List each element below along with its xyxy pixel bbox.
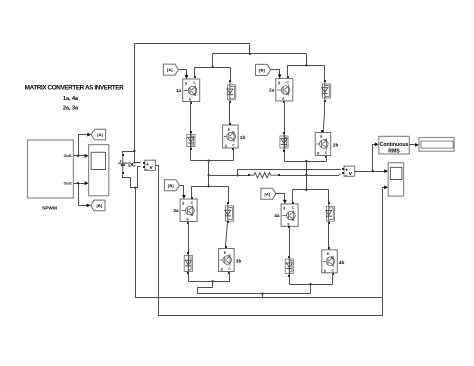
arrowhead 2a gate: [278, 74, 282, 78]
from tag [B] leg2: [256, 64, 271, 75]
svg-text:g: g: [185, 81, 187, 85]
from tag [A] leg4: [261, 188, 276, 199]
IGBT 2b: [315, 133, 331, 156]
snubber diode D4a bottom port: [288, 275, 290, 277]
subsystem SPWM: [28, 140, 74, 198]
3a C port: [191, 197, 193, 199]
svg-text:g: g: [278, 81, 280, 85]
snubber diode D4a: [285, 257, 293, 276]
snubber diode D1b top port: [229, 80, 231, 82]
junction load tap left: [208, 174, 210, 176]
wire from A to 4a gate: [276, 194, 285, 202]
snubber diode D3b bottom port: [227, 221, 229, 223]
snubber diode D4b: [326, 204, 335, 224]
display block: [419, 138, 454, 152]
snubber diode D2a bottom port: [283, 150, 285, 152]
wire leg4 bottom drop: [310, 285, 312, 294]
junction DC- tap: [134, 187, 136, 189]
junction leg2 output: [305, 160, 307, 162]
wire feed leg1: [212, 54, 214, 68]
svg-text:g: g: [283, 206, 285, 210]
resistor left port: [248, 174, 250, 176]
3b top port: [225, 246, 227, 248]
resistor series RLC branch: [249, 173, 279, 178]
junction leg3 feed: [208, 185, 210, 187]
svg-text:[A]: [A]: [97, 132, 103, 137]
wire leg2 output down to leg4: [306, 162, 308, 190]
junction Out1: [77, 155, 79, 157]
svg-text:[B]: [B]: [97, 203, 103, 208]
snubber diode D1b bottom port: [229, 101, 231, 103]
wire v1- down: [136, 167, 141, 188]
arrowhead 1a gate: [185, 75, 189, 79]
wire D1b to 1b: [229, 102, 231, 126]
junction leg4 feed: [305, 189, 307, 191]
wire DC- down: [123, 175, 136, 188]
snubber diode D2b bottom port: [324, 100, 326, 102]
svg-text:SPWM: SPWM: [42, 205, 57, 211]
wire V2 output: [355, 145, 386, 172]
svg-text:g: g: [221, 267, 223, 271]
wire 1b down: [233, 149, 235, 161]
wire leg3 top rail: [192, 187, 229, 203]
snubber diode D2a: [280, 134, 288, 151]
wire D3b to 3b: [226, 223, 228, 249]
wire upper distribution rail: [213, 53, 307, 55]
wire leg2 top rail: [288, 66, 325, 82]
svg-text:Out2: Out2: [64, 182, 72, 186]
wire from B to 2a gate: [271, 70, 280, 77]
junction leg1 feed: [212, 66, 214, 68]
arrowhead into goto B: [87, 204, 91, 208]
wire from B to 3a gate: [180, 186, 184, 197]
2a E port: [283, 101, 285, 103]
svg-text:[B]: [B]: [168, 183, 174, 188]
arrowhead into scope2 in1: [384, 169, 388, 173]
from tag [B] leg3: [164, 180, 179, 191]
wire load line right to V2-: [279, 174, 341, 176]
wire left vertical rail to v1+: [135, 44, 141, 163]
wire RMS to display: [410, 144, 417, 146]
snubber diode D4a top port: [288, 256, 290, 258]
svg-text:[A]: [A]: [265, 191, 271, 196]
V1 - port: [143, 166, 145, 168]
wire leg4 top rail: [293, 190, 329, 204]
wire leg2 bottom rail: [285, 161, 327, 163]
4a E port: [288, 226, 290, 228]
DC voltage source: [118, 156, 128, 172]
junction load tap right: [305, 174, 307, 176]
wire load line left: [209, 175, 249, 177]
1a E port: [190, 102, 192, 104]
3b bottom port: [228, 272, 230, 274]
svg-text:RMS: RMS: [388, 149, 400, 155]
junction load left corner: [236, 174, 238, 176]
snubber diode D3a: [184, 253, 192, 274]
4b bottom port: [332, 273, 334, 275]
wire leg1 top rail: [195, 68, 231, 82]
snubber diode D4b bottom port: [328, 222, 330, 224]
snubber diode D1b: [227, 82, 236, 102]
svg-text:1a: 1a: [176, 88, 182, 94]
svg-text:3a: 3a: [173, 208, 179, 214]
svg-text:3b: 3b: [236, 259, 242, 265]
snubber diode D1a top port: [190, 131, 192, 133]
wire legs 3-4 common rail: [198, 293, 311, 295]
IGBT 2a: [276, 78, 293, 101]
IGBT 3a: [180, 199, 197, 222]
arrowhead into scope1 in1: [85, 154, 89, 158]
svg-text:v: v: [150, 165, 153, 171]
IGBT 3b: [219, 249, 235, 272]
arrowhead into scope1 in2: [85, 181, 89, 185]
wire 4b down: [332, 273, 334, 285]
goto tag [B]: [91, 200, 105, 211]
snubber diode D3a top port: [187, 252, 189, 254]
snubber diode D2b top port: [324, 80, 326, 82]
svg-text:g: g: [182, 201, 184, 205]
wire load branch upper to V2+: [238, 170, 341, 176]
wire from A to 1a gate: [179, 70, 187, 77]
wire Out1 to scope and goto A: [74, 135, 89, 156]
wire 2b down: [326, 156, 328, 162]
2b top port: [321, 130, 323, 132]
V1 + port: [143, 162, 145, 164]
junction leg4 bottom: [309, 283, 311, 285]
IGBT 1a: [183, 79, 200, 102]
svg-text:4b: 4b: [339, 260, 345, 266]
junction V2 output: [372, 170, 374, 172]
scope Scope1: [89, 145, 109, 196]
4a C port: [292, 202, 294, 204]
snubber diode D3b top port: [227, 202, 229, 204]
wire leg3 bottom rail: [189, 281, 230, 283]
svg-text:g: g: [225, 144, 227, 148]
arrowhead into goto A: [87, 133, 91, 137]
from tag [A] leg1: [163, 64, 178, 75]
snubber diode D2a top port: [283, 132, 285, 134]
2b bottom port: [325, 156, 327, 158]
wire D4b to 4b: [328, 224, 330, 250]
wire leg1 output down to leg3: [208, 161, 210, 187]
junction leg3 bottom: [212, 280, 214, 282]
svg-text:[A]: [A]: [167, 67, 173, 72]
wire D2b to 2b: [324, 101, 325, 133]
DC source + port: [122, 154, 124, 156]
junction leg1 output: [208, 160, 210, 162]
wire leg4 bottom rail: [290, 277, 333, 285]
junction Out2: [77, 182, 79, 184]
svg-text:g: g: [317, 151, 319, 155]
snubber diode D4b top port: [328, 202, 330, 204]
junction common to negative: [261, 293, 263, 295]
arrowhead into display: [415, 143, 419, 147]
wire bottom negative rail: [136, 188, 383, 298]
arrowhead into RMS: [375, 142, 379, 146]
wire DC+ to left rail: [123, 152, 135, 154]
svg-text:DC: DC: [128, 162, 136, 168]
IGBT 4b: [322, 250, 338, 273]
svg-text:1a, 4a: 1a, 4a: [63, 96, 79, 102]
V2 + port: [342, 168, 344, 170]
1a C port: [194, 76, 196, 78]
snubber diode D3b: [225, 203, 234, 222]
wire feed leg2: [306, 54, 308, 66]
wire 3a emitter down: [188, 222, 190, 282]
3a E port: [187, 222, 189, 224]
arrowhead into scope2 in2: [384, 185, 388, 189]
1b bottom port: [232, 148, 234, 150]
snubber diode D2b: [322, 82, 331, 101]
svg-text:[B]: [B]: [259, 68, 265, 73]
IGBT 4a: [281, 204, 298, 227]
resistor right port: [278, 174, 280, 176]
wire common rail tick to negative rail: [262, 294, 264, 298]
block Continuous RMS: [379, 136, 410, 154]
svg-text:4a: 4a: [274, 213, 280, 219]
svg-text:2b: 2b: [333, 143, 339, 149]
wire leg1 bottom rail: [191, 160, 234, 162]
wire 4a emitter down: [289, 227, 291, 285]
snubber diode D1a: [187, 132, 195, 149]
arrowhead 4a gate: [283, 200, 287, 204]
svg-text:Continuous: Continuous: [380, 142, 409, 148]
svg-text:2a: 2a: [269, 88, 275, 94]
wire V1 output to scope2 in2: [156, 166, 386, 316]
4b top port: [328, 247, 330, 249]
svg-text:MATRIX CONVERTER AS INVERTER: MATRIX CONVERTER AS INVERTER: [25, 85, 124, 92]
voltage measurement V1: [145, 160, 156, 172]
wire 2a emitter down: [284, 102, 286, 162]
svg-text:1b: 1b: [240, 135, 246, 141]
snubber diode D3a bottom port: [187, 272, 189, 274]
junction DC+ tap: [133, 150, 135, 152]
snubber diode D1a bottom port: [190, 148, 192, 150]
wire top rail: [135, 44, 250, 54]
scope Scope2: [388, 163, 403, 196]
junction leg2 feed: [305, 64, 307, 66]
junction top rail: [249, 53, 251, 55]
arrowhead 3a gate: [182, 195, 186, 199]
wire Out2 to scope and goto B: [74, 184, 89, 206]
wire 1a emitter down: [190, 102, 192, 161]
svg-text:v: v: [349, 171, 352, 177]
2a C port: [287, 76, 289, 78]
goto tag [A]: [91, 129, 105, 140]
V2 - port: [342, 172, 344, 174]
svg-text:Out1: Out1: [64, 154, 72, 158]
wire 3b down: [229, 272, 231, 282]
voltage measurement V2 load: [344, 166, 355, 178]
DC source - port: [122, 172, 124, 174]
wire leg3 bottom drop: [198, 282, 213, 294]
IGBT 1b: [223, 125, 239, 148]
svg-text:2a, 3a: 2a, 3a: [63, 105, 79, 111]
svg-text:g: g: [324, 268, 326, 272]
1b top port: [229, 123, 231, 125]
